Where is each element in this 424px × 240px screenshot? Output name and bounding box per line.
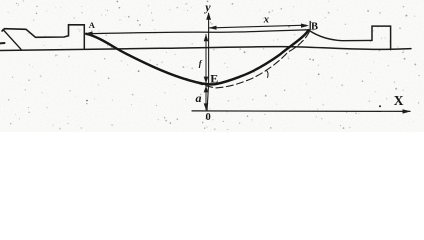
- x-dim left arrow: [209, 26, 217, 30]
- left edge dash: [0, 42, 5, 44]
- left bank slope: [3, 30, 21, 50]
- chord line A-B: [87, 30, 309, 34]
- svg-text:A: A: [89, 20, 96, 30]
- X axis arrow: [403, 109, 411, 113]
- dimension vertical f/a: [205, 35, 207, 110]
- right terrain profile: [309, 31, 372, 41]
- svg-text:X: X: [394, 93, 404, 108]
- right tower: [372, 26, 391, 49]
- y axis vertical: [207, 14, 209, 112]
- svg-text:E: E: [210, 71, 218, 85]
- left terrain profile: [2, 25, 84, 38]
- conductor curve (solid): [86, 30, 308, 84]
- svg-text:B: B: [311, 22, 318, 33]
- svg-text:y: y: [203, 0, 211, 14]
- svg-text:0: 0: [206, 112, 211, 123]
- curve length tick l: [267, 71, 269, 78]
- speck lower left: [86, 100, 88, 102]
- f top arrow: [204, 34, 209, 41]
- y axis arrow: [206, 12, 211, 19]
- svg-text:x: x: [263, 14, 269, 25]
- x axis: [192, 110, 410, 113]
- ground line: [0, 47, 411, 51]
- a bottom arrow: [204, 103, 209, 110]
- x dimension line: [210, 25, 307, 28]
- B tick: [309, 21, 311, 29]
- f bottom arrow: [204, 77, 209, 84]
- A point arrow: [84, 31, 92, 36]
- conductor curve (dashed lower): [186, 32, 310, 88]
- svg-text:a: a: [196, 91, 202, 105]
- paper speckle: [8, 1, 420, 131]
- arrowheads: [84, 12, 411, 113]
- a top arrow: [204, 86, 209, 93]
- x-dim right arrow: [301, 24, 309, 28]
- dot near X label: [379, 105, 381, 107]
- left tower leg: [83, 25, 85, 49]
